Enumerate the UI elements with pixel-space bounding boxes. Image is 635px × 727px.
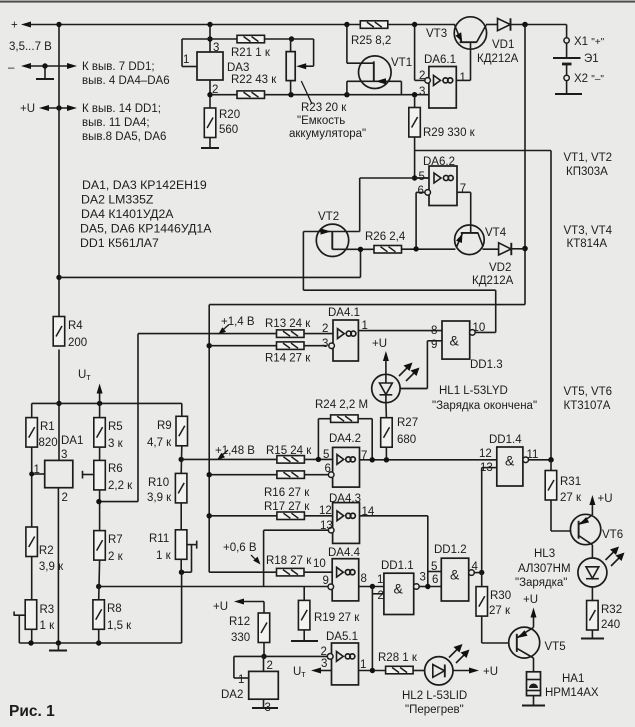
svg-text:VT1: VT1 — [391, 57, 412, 69]
trimmer R6 2,2 к — [94, 460, 106, 490]
svg-text:R24 2,2 М: R24 2,2 М — [315, 399, 368, 411]
svg-text:R14 27 к: R14 27 к — [265, 353, 311, 365]
wire rail to DA6.1 pin2 — [412, 22, 417, 27]
LED HL3 АЛ307НМ — [578, 558, 607, 587]
wire R13 to R6 tap — [138, 333, 277, 335]
svg-text:2: 2 — [378, 590, 384, 602]
svg-text:&: & — [394, 581, 404, 597]
gate DD1.3 — [442, 321, 470, 359]
resistor R31 27 к — [550, 460, 552, 471]
svg-text:R27: R27 — [397, 417, 418, 429]
svg-text:VT4: VT4 — [485, 227, 507, 239]
svg-text:DA5.1: DA5.1 — [326, 631, 358, 643]
svg-text:DD1.1: DD1.1 — [381, 560, 414, 572]
wire DA3 pin2 row to DA6.1 pin3 — [209, 80, 211, 108]
svg-text:X2 "–": X2 "–" — [574, 73, 604, 85]
svg-text:X1 "+": X1 "+" — [574, 36, 605, 48]
battery Э1 — [566, 43, 568, 57]
svg-text:DD1.2: DD1.2 — [434, 544, 467, 556]
svg-text:R15 24 к: R15 24 к — [266, 445, 312, 457]
svg-text:1: 1 — [360, 659, 366, 671]
wire pin3 node to R29 — [414, 95, 416, 108]
svg-text:R11: R11 — [149, 533, 169, 545]
svg-text:DA4.1: DA4.1 — [328, 307, 360, 319]
svg-text:330: 330 — [231, 632, 250, 644]
transistor VT1 КП303А — [359, 56, 392, 89]
wire left bus — [58, 25, 60, 317]
resistor R4 — [53, 317, 64, 347]
svg-text:680: 680 — [397, 434, 416, 446]
svg-text:R28 1 к: R28 1 к — [378, 652, 418, 664]
svg-text:1 к: 1 к — [156, 550, 172, 562]
terminal X1 — [564, 38, 569, 43]
svg-text:–: – — [8, 62, 15, 74]
svg-text:КП303А: КП303А — [566, 166, 608, 178]
svg-text:DA4.2: DA4.2 — [329, 433, 361, 445]
resistor R10 3,9 к — [175, 473, 187, 503]
IC DA2 LM335Z — [249, 671, 279, 699]
wire Ut input arrow — [317, 670, 332, 672]
resistor R12 330 — [263, 602, 265, 614]
wire DA3 pin1 loop — [181, 39, 183, 67]
svg-text:820: 820 — [39, 437, 58, 449]
svg-text:R18 27 к: R18 27 к — [266, 555, 312, 567]
svg-text:&: & — [450, 333, 460, 349]
svg-text:VT5: VT5 — [545, 641, 566, 653]
svg-text:HL3: HL3 — [534, 548, 555, 560]
wire battery branch — [566, 25, 568, 38]
svg-text:R31: R31 — [560, 476, 581, 488]
svg-text:10: 10 — [313, 558, 326, 570]
resistor R17 27 к — [207, 513, 212, 518]
wire DA6.2 out to VT4 base — [457, 191, 471, 193]
svg-text:R25 8,2: R25 8,2 — [351, 35, 391, 47]
svg-text:DA2: DA2 — [221, 689, 243, 701]
svg-text:"Перегрев": "Перегрев" — [405, 704, 464, 716]
svg-text:3,9 к: 3,9 к — [147, 492, 172, 504]
svg-text:1: 1 — [238, 674, 244, 686]
svg-text:R29 330 к: R29 330 к — [423, 127, 476, 139]
svg-text:3: 3 — [321, 658, 327, 670]
svg-text:27 к: 27 к — [560, 492, 582, 504]
svg-text:+U: +U — [20, 103, 35, 115]
svg-text:27 к: 27 к — [489, 605, 511, 617]
svg-text:DA4.4: DA4.4 — [328, 547, 361, 559]
svg-text:+U: +U — [213, 601, 228, 613]
svg-text:НРМ14АХ: НРМ14АХ — [545, 687, 599, 699]
svg-text:240: 240 — [601, 619, 620, 631]
wire DA6.2 pin6 to R26 right node — [416, 191, 425, 193]
svg-text:R1: R1 — [40, 421, 55, 433]
svg-text:DD1.4: DD1.4 — [489, 434, 522, 446]
svg-text:8: 8 — [431, 325, 437, 337]
wire DA4.1 out to DD1.3 — [358, 330, 442, 332]
svg-text:3 к: 3 к — [108, 438, 124, 450]
resistor R19 27 к — [303, 587, 305, 601]
svg-text:5: 5 — [323, 449, 329, 461]
resistor R2 3,9 к — [26, 527, 38, 557]
svg-text:R19 27 к: R19 27 к — [314, 612, 360, 624]
svg-text:НА1: НА1 — [562, 673, 584, 685]
wire DA4.3 pin13 to divider tap — [264, 529, 329, 531]
svg-text:R6: R6 — [108, 463, 123, 475]
svg-text:R23 20 к: R23 20 к — [301, 102, 347, 114]
svg-text:VD1: VD1 — [492, 39, 514, 51]
svg-text:VD2: VD2 — [489, 262, 511, 274]
resistor R8 1,5 к — [93, 600, 105, 630]
wire battery plus bus down right side — [524, 25, 526, 305]
svg-text:R16 27 к: R16 27 к — [264, 487, 310, 499]
svg-text:R30: R30 — [490, 590, 511, 602]
resistor R22 — [237, 91, 265, 99]
svg-text:2: 2 — [419, 70, 425, 82]
svg-text:3: 3 — [213, 42, 219, 54]
svg-text:DA4 К1401УД2А: DA4 К1401УД2А — [81, 207, 174, 221]
svg-text:9: 9 — [323, 575, 329, 587]
svg-text:R12: R12 — [229, 616, 250, 628]
wire HL1 to R27 — [385, 403, 388, 418]
svg-text:DA2 LM335Z: DA2 LM335Z — [81, 193, 154, 207]
IC DA3 КР142ЕН19 — [197, 52, 223, 80]
svg-text:"Емкость: "Емкость — [297, 115, 345, 127]
svg-text:2,2 к: 2,2 к — [108, 480, 133, 492]
svg-text:3: 3 — [61, 449, 67, 461]
ground at battery — [566, 81, 568, 94]
resistor R26 2,4 — [374, 246, 402, 254]
svg-text:DD1 К561ЛА7: DD1 К561ЛА7 — [80, 236, 159, 250]
resistor R32 240 — [591, 587, 593, 601]
LED HL2 L-53LID — [425, 657, 453, 685]
svg-text:3,9 к: 3,9 к — [39, 561, 64, 573]
trimmer R3 1 к — [25, 600, 37, 630]
svg-text:R5: R5 — [108, 421, 123, 433]
page top border — [0, 1, 635, 3]
wire DA5.1 out — [359, 670, 386, 672]
svg-text:Рис. 1: Рис. 1 — [9, 703, 55, 720]
svg-text:DA3: DA3 — [227, 62, 249, 74]
svg-text:К выв. 7 DD1;: К выв. 7 DD1; — [82, 61, 155, 73]
svg-text:DA6.1: DA6.1 — [424, 54, 456, 66]
svg-text:R21 1 к: R21 1 к — [231, 47, 271, 59]
svg-text:8: 8 — [361, 573, 367, 585]
svg-text:КТ814А: КТ814А — [567, 238, 608, 250]
svg-text:R8: R8 — [107, 603, 122, 615]
junction dot minus/ground — [42, 63, 47, 68]
wire R29 bottom to DD1.4 output net — [415, 150, 551, 152]
svg-text:Э1: Э1 — [584, 53, 599, 65]
wire DA6.1 out to VT3 base — [456, 79, 470, 81]
svg-text:+1,4 В: +1,4 В — [221, 316, 255, 328]
svg-text:+U: +U — [523, 594, 538, 606]
svg-text:R13 24 к: R13 24 к — [265, 318, 311, 330]
svg-text:DA5, DA6 КР1446УД1А: DA5, DA6 КР1446УД1А — [80, 222, 212, 236]
svg-text:+: + — [11, 20, 18, 32]
svg-text:2: 2 — [62, 492, 68, 504]
svg-text:5: 5 — [419, 171, 425, 183]
svg-text:DA1, DA3 КР142ЕН19: DA1, DA3 КР142ЕН19 — [82, 178, 207, 192]
wire rail to DA3 — [207, 22, 212, 27]
wire VT2 gate loop to DD1.3 out — [302, 232, 304, 291]
svg-text:6: 6 — [418, 185, 424, 197]
svg-text:4,7 к: 4,7 к — [147, 437, 172, 449]
svg-text:VT3: VT3 — [426, 28, 447, 40]
svg-text:R10: R10 — [148, 477, 169, 489]
svg-text:R32: R32 — [601, 604, 622, 616]
svg-text:R22 43 к: R22 43 к — [231, 74, 277, 86]
wire Ut bus row — [56, 401, 61, 406]
resistor R29 330 к — [409, 108, 421, 138]
svg-text:3,5...7 В: 3,5...7 В — [9, 41, 52, 53]
wire DA4.3 out down to DD1.2 — [360, 515, 428, 517]
terminal X2 — [564, 75, 569, 80]
svg-text:R2: R2 — [39, 545, 54, 557]
svg-text:2: 2 — [267, 660, 273, 672]
svg-text:"Зарядка окончена": "Зарядка окончена" — [432, 400, 537, 412]
svg-text:+0,6 В: +0,6 В — [223, 542, 257, 554]
svg-text:R9: R9 — [157, 420, 172, 432]
svg-text:АЛ307НМ: АЛ307НМ — [518, 563, 571, 575]
buzzer HA1 НРМ14АХ — [527, 672, 541, 696]
svg-text:VT6: VT6 — [602, 529, 623, 541]
resistor R20 — [204, 108, 216, 138]
svg-text:2 к: 2 к — [108, 551, 124, 563]
svg-text:R26 2,4: R26 2,4 — [365, 231, 406, 243]
label Ut arrow — [97, 401, 102, 406]
svg-text:&: & — [505, 453, 515, 469]
wire DA4.2 out row to DD1.4 — [360, 459, 497, 461]
resistor R5 3 к — [99, 403, 101, 417]
svg-text:R7: R7 — [108, 534, 123, 546]
resistor R1 820 — [26, 418, 38, 448]
svg-text:6: 6 — [432, 574, 438, 586]
svg-text:560: 560 — [219, 124, 238, 136]
svg-text:VT3, VT4: VT3, VT4 — [564, 225, 613, 237]
svg-text:+U: +U — [372, 338, 387, 350]
svg-text:КТ3107А: КТ3107А — [564, 400, 611, 412]
svg-text:выв. 4 DA4–DA6: выв. 4 DA4–DA6 — [82, 75, 170, 87]
svg-text:1: 1 — [377, 574, 383, 586]
svg-text:3: 3 — [419, 86, 425, 98]
resistor R9 4,7 к — [181, 403, 183, 416]
wire battery sense loop top edge — [209, 304, 525, 306]
svg-text:R4: R4 — [68, 320, 83, 332]
IC DA1 КР142ЕН19 temp sensor — [45, 460, 73, 487]
svg-text:1: 1 — [460, 72, 466, 84]
svg-text:3: 3 — [420, 572, 426, 584]
svg-text:+U: +U — [598, 493, 613, 505]
svg-text:R3: R3 — [40, 604, 55, 616]
svg-text:7: 7 — [460, 183, 466, 195]
ground main — [57, 643, 59, 650]
svg-text:13: 13 — [480, 462, 493, 474]
wire DA4.4 out to DD1.1 — [359, 586, 384, 588]
svg-text:2: 2 — [322, 323, 328, 335]
resistor R18 27 к — [209, 571, 276, 573]
svg-text:1: 1 — [183, 54, 189, 66]
svg-text:&: & — [450, 567, 460, 583]
transistor VT5 КТ3107А — [509, 627, 540, 658]
wire DD1.2 out up to DD1.4 pin13 — [481, 468, 483, 573]
diode VD1 КД212А — [498, 18, 511, 30]
wire DD1.3 pin9 to HL1 — [427, 340, 442, 342]
node to VT2 source: long feedback wire — [56, 275, 61, 280]
svg-text:+U: +U — [483, 666, 498, 678]
ground at minus row — [44, 66, 46, 79]
resistor R16 27 к — [207, 472, 212, 477]
svg-text:6: 6 — [325, 463, 331, 475]
diode VD2 КД212А — [499, 243, 511, 255]
resistor R15 24 к — [179, 457, 184, 462]
svg-text:DD1.3: DD1.3 — [470, 359, 503, 371]
wire bottom bus — [19, 642, 181, 644]
svg-text:12: 12 — [479, 448, 492, 460]
svg-text:HL1 L-53LYD: HL1 L-53LYD — [439, 385, 508, 397]
resistor R13 24 к — [277, 330, 305, 338]
ground under R20 — [209, 138, 211, 148]
resistor R30 27 к — [481, 573, 483, 587]
svg-text:"Зарядка": "Зарядка" — [515, 577, 567, 589]
svg-text:3: 3 — [322, 338, 328, 350]
svg-text:200: 200 — [68, 337, 87, 349]
wire divider tap row R7/R8 to DA4.4 pin9 — [96, 584, 101, 589]
resistor R21 — [237, 35, 265, 43]
svg-text:VT5, VT6: VT5, VT6 — [564, 386, 613, 398]
svg-text:К выв. 14 DD1;: К выв. 14 DD1; — [82, 103, 161, 115]
svg-text:VT2: VT2 — [318, 211, 339, 223]
resistor R27 680 — [381, 418, 393, 448]
transistor VT6 КТ3107А — [570, 514, 600, 544]
svg-text:аккумулятора": аккумулятора" — [289, 128, 366, 140]
resistor R14 27 к — [207, 343, 212, 348]
potentiometer R23 20 к — [290, 39, 292, 52]
svg-text:12: 12 — [319, 505, 332, 517]
svg-text:R20: R20 — [219, 109, 240, 121]
trimmer R11 1 к — [175, 530, 187, 560]
svg-text:КД212А: КД212А — [477, 53, 519, 65]
svg-text:КД212А: КД212А — [472, 275, 514, 287]
svg-text:5: 5 — [431, 561, 437, 573]
wire R12 node row — [261, 654, 266, 659]
resistor R25 — [360, 21, 388, 29]
svg-text:1 к: 1 к — [40, 620, 56, 632]
svg-text:DA1: DA1 — [61, 435, 83, 447]
resistor R7 2 к — [94, 531, 106, 561]
svg-text:выв.8 DA5, DA6: выв.8 DA5, DA6 — [82, 131, 166, 143]
svg-text:HL2 L-53LID: HL2 L-53LID — [402, 690, 467, 702]
svg-text:R17 27 к: R17 27 к — [264, 501, 310, 513]
svg-text:1,5 к: 1,5 к — [107, 620, 132, 632]
svg-text:выв. 11 DA4;: выв. 11 DA4; — [82, 117, 150, 129]
svg-text:VT1, VT2: VT1, VT2 — [564, 152, 613, 164]
